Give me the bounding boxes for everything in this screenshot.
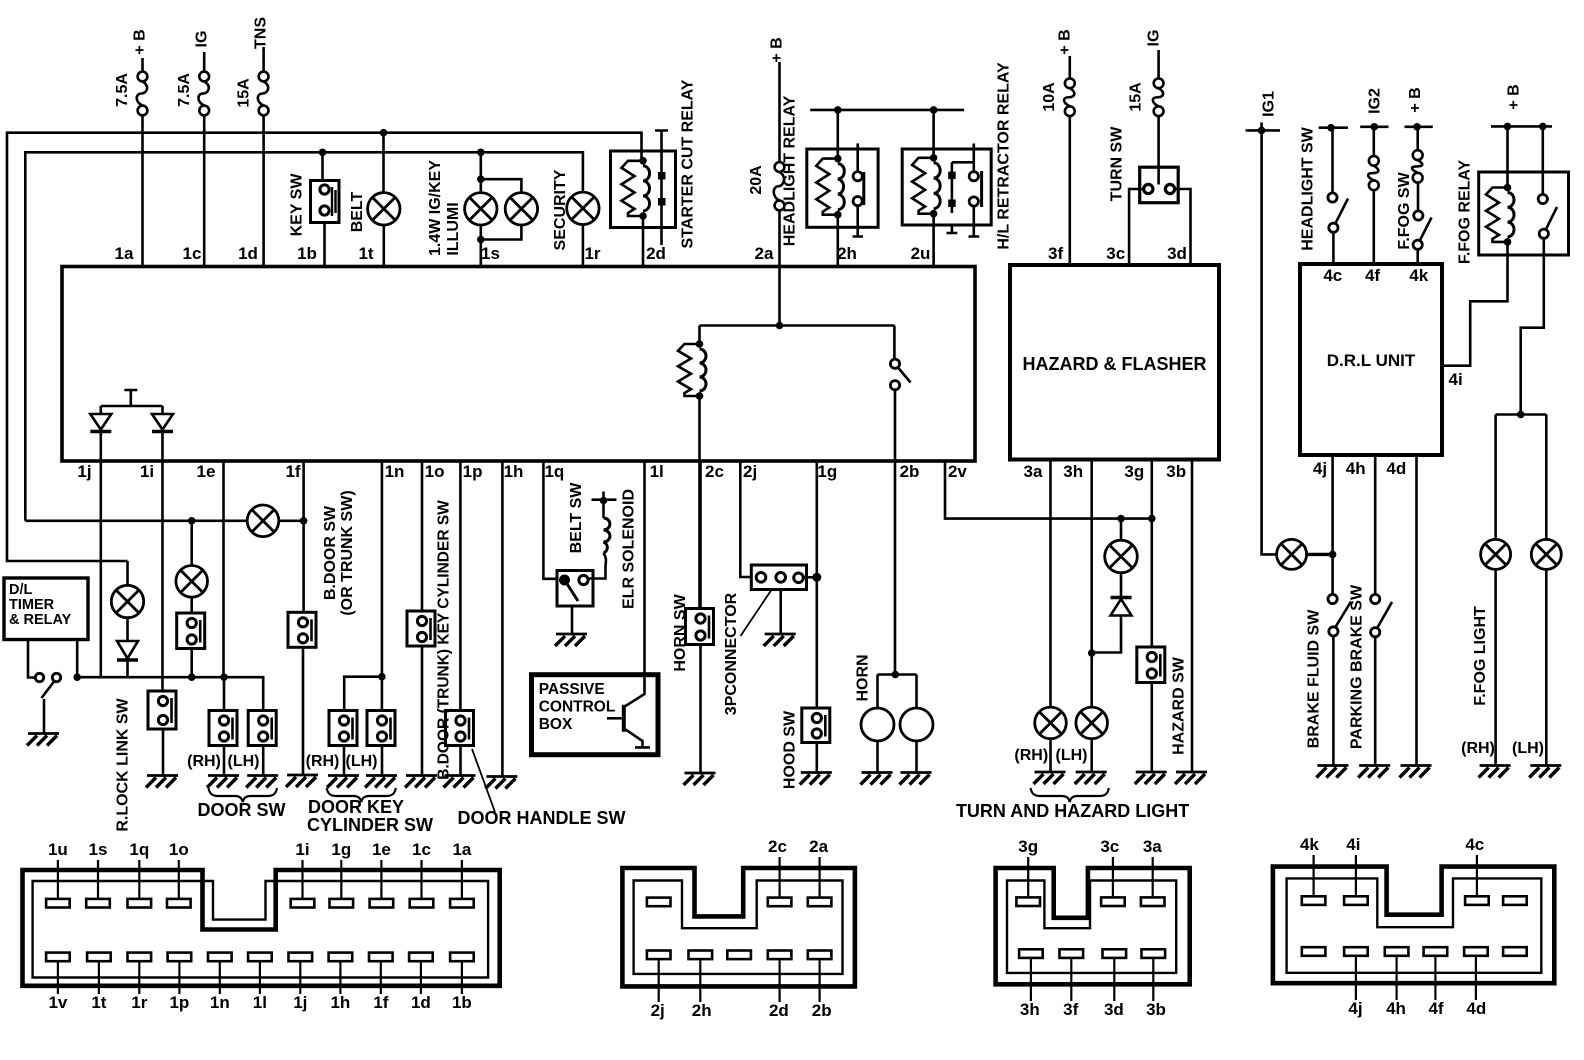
svg-text:HEADLIGHT SW: HEADLIGHT SW: [1300, 126, 1317, 250]
svg-text:2d: 2d: [646, 244, 666, 263]
svg-text:3g: 3g: [1018, 837, 1038, 856]
svg-text:D/L: D/L: [9, 582, 33, 598]
wire bus D (door switch line): [77, 677, 263, 710]
svg-text:HAZARD & FLASHER: HAZARD & FLASHER: [1023, 354, 1207, 374]
horn (left): [876, 675, 879, 708]
wire pin 4j to brake fluid sw: [1331, 455, 1334, 595]
svg-text:15A: 15A: [236, 78, 253, 108]
ground hazard sw: [1135, 772, 1167, 784]
wire pin 1i: [161, 461, 164, 691]
solenoid ELR SOLENOID: [592, 492, 617, 501]
switch HAZARD SW: [1137, 647, 1165, 683]
wire bus A (+B feed, left frame): [7, 133, 642, 561]
svg-text:4c: 4c: [1323, 266, 1342, 285]
svg-text:(LH): (LH): [228, 753, 260, 770]
svg-text:1j: 1j: [77, 462, 91, 481]
svg-text:1g: 1g: [331, 840, 351, 859]
brace door key cylinder sw: [327, 788, 396, 802]
svg-text:+ B: + B: [132, 29, 149, 54]
svg-text:3a: 3a: [1024, 462, 1043, 481]
main connector box (units 1/2): [62, 267, 975, 462]
svg-text:1q: 1q: [129, 840, 149, 859]
headlight relay contact: [856, 143, 859, 171]
svg-text:1v: 1v: [48, 993, 67, 1012]
wire pin 2b to horns: [892, 671, 900, 679]
connector 3 bottom slots: [1019, 949, 1043, 958]
svg-text:1b: 1b: [452, 993, 472, 1012]
fuse 15A IG (turn sw feed): [1157, 50, 1160, 78]
lamp BELT (pin 1t): [380, 129, 388, 137]
ground fog light rh: [1479, 766, 1511, 778]
switch HEADLIGHT SW (pin 4c): [1319, 126, 1348, 129]
fuse 20A +B (pin 2a feed): [778, 62, 781, 162]
wire lamp to 4j line: [1307, 553, 1333, 556]
svg-text:2b: 2b: [900, 462, 920, 481]
ground turn light rh: [1034, 772, 1066, 784]
svg-text:PARKING BRAKE SW: PARKING BRAKE SW: [1349, 584, 1366, 749]
relay HEADLIGHT RELAY (pin 2h): [834, 106, 842, 114]
connector 4 bottom slots: [1302, 947, 1326, 956]
ground 3p connector: [764, 634, 796, 646]
ground belt sw: [555, 634, 587, 646]
svg-text:1n: 1n: [385, 462, 405, 481]
lamp F.FOG LIGHT (RH): [1494, 415, 1497, 540]
svg-text:(RH): (RH): [1014, 747, 1048, 764]
svg-text:1b: 1b: [297, 244, 317, 263]
connector 1 bottom slots: [46, 953, 70, 962]
d/l relay output switch to ground: [28, 640, 34, 678]
svg-text:4j: 4j: [1313, 459, 1327, 478]
svg-text:1g: 1g: [817, 462, 837, 481]
svg-text:1h: 1h: [330, 993, 350, 1012]
switch R.LOCK LINK SW: [148, 691, 176, 729]
svg-text:2c: 2c: [768, 837, 787, 856]
svg-text:4f: 4f: [1428, 999, 1443, 1018]
svg-text:3h: 3h: [1063, 462, 1083, 481]
svg-text:DOOR HANDLE SW: DOOR HANDLE SW: [458, 808, 626, 828]
svg-text:HORN: HORN: [855, 654, 872, 701]
wire pin 1e to bus D: [222, 461, 225, 677]
relay H/L RETRACTOR RELAY (pin 2u): [930, 106, 938, 114]
switch 2a-2b inside main box: [893, 326, 896, 360]
svg-text:(RH): (RH): [306, 753, 340, 770]
svg-text:H/L RETRACTOR RELAY: H/L RETRACTOR RELAY: [996, 62, 1013, 250]
svg-text:3b: 3b: [1166, 462, 1186, 481]
ground fog light lh: [1529, 766, 1561, 778]
svg-text:1j: 1j: [293, 993, 307, 1012]
switch DOOR KEY CYLINDER SW (RH): [329, 711, 357, 746]
svg-text:1a: 1a: [452, 840, 471, 859]
ground d/l relay: [27, 734, 59, 746]
fuse 7.5A +B (pin 1a feed): [141, 58, 144, 72]
svg-text:IG1: IG1: [1261, 91, 1278, 117]
svg-text:1r: 1r: [584, 244, 600, 263]
switch TURN SW (pins 3c/3d): [1140, 167, 1179, 203]
wire pin 2c: [699, 461, 702, 609]
svg-text:1c: 1c: [183, 244, 202, 263]
connector 2 top slots: [647, 898, 671, 907]
svg-text:IG: IG: [194, 31, 211, 48]
wire bus C (courtesy lamp line): [25, 519, 247, 522]
wire pin 2v: [945, 461, 1152, 519]
svg-text:+ B: + B: [769, 37, 786, 62]
f.fog relay contact: [1542, 126, 1545, 194]
connector block 2 outline: [622, 868, 855, 986]
svg-text:(RH): (RH): [1461, 740, 1495, 757]
svg-text:2h: 2h: [837, 244, 857, 263]
connector 3 top slots: [1016, 897, 1040, 906]
svg-text:2c: 2c: [705, 462, 724, 481]
svg-text:10A: 10A: [1041, 82, 1058, 112]
svg-text:BRAKE FLUID SW: BRAKE FLUID SW: [1306, 609, 1323, 749]
svg-text:3c: 3c: [1100, 837, 1119, 856]
svg-text:1p: 1p: [169, 993, 189, 1012]
ground 1h: [485, 777, 517, 789]
svg-text:1d: 1d: [411, 993, 431, 1012]
wire pin 3f: [1069, 116, 1072, 265]
svg-text:2a: 2a: [809, 837, 828, 856]
switch BRAKE FLUID SW: [1328, 594, 1337, 603]
svg-text:3g: 3g: [1124, 462, 1144, 481]
svg-text:BELT: BELT: [349, 191, 366, 232]
fuse IG2 (pin 4f): [1360, 126, 1388, 129]
svg-text:7.5A: 7.5A: [114, 73, 131, 107]
connector 3PCONNECTOR: [751, 565, 806, 590]
svg-text:ELR SOLENOID: ELR SOLENOID: [621, 489, 638, 609]
svg-text:4d: 4d: [1386, 459, 1406, 478]
svg-text:KEY SW: KEY SW: [289, 173, 306, 237]
svg-text:1n: 1n: [210, 993, 230, 1012]
wire pin 1o: [421, 461, 424, 611]
svg-text:1.4W IG/KEY: 1.4W IG/KEY: [427, 160, 444, 256]
svg-text:(LH): (LH): [346, 753, 378, 770]
svg-text:(LH): (LH): [1056, 747, 1088, 764]
svg-text:3f: 3f: [1048, 244, 1063, 263]
svg-text:1h: 1h: [504, 462, 524, 481]
wire IG1 to brake warning lamp: [1262, 130, 1277, 554]
lamp TURN AND HAZARD LIGHT (LH): [1076, 707, 1108, 739]
starter cut relay contact: [655, 131, 668, 246]
svg-text:1q: 1q: [544, 462, 564, 481]
ground parking brake sw: [1358, 766, 1390, 778]
svg-text:+ B: + B: [1057, 29, 1074, 54]
horn (right): [915, 675, 918, 709]
wire f.fog relay contact to fog lights: [1521, 238, 1544, 414]
lamp indicator on 2v line: [1120, 519, 1123, 541]
svg-text:+ B: + B: [1506, 84, 1523, 109]
ground door handle sw: [444, 776, 476, 788]
svg-text:STARTER CUT RELAY: STARTER CUT RELAY: [680, 79, 697, 248]
ground hood sw: [800, 773, 832, 785]
svg-text:20A: 20A: [748, 165, 765, 195]
svg-text:TURN AND HAZARD LIGHT: TURN AND HAZARD LIGHT: [956, 801, 1189, 821]
wire pin 1n to key cylinder switches: [381, 461, 384, 711]
wire pin 1l: [643, 461, 646, 676]
box D.R.L UNIT: [1300, 264, 1442, 455]
svg-text:HAZARD SW: HAZARD SW: [1171, 656, 1188, 755]
ground brake fluid sw: [1316, 766, 1348, 778]
switch HORN SW: [686, 609, 714, 645]
svg-text:7.5A: 7.5A: [176, 73, 193, 107]
lamp on bus C: [247, 505, 279, 537]
svg-text:TIMER: TIMER: [9, 597, 55, 613]
lamp and diode R.LOCK chain: [126, 561, 129, 586]
node IG1 tap: [1246, 123, 1280, 131]
svg-text:(LH): (LH): [1512, 740, 1544, 757]
svg-text:3PCONNECTOR: 3PCONNECTOR: [723, 592, 740, 715]
wire pin 1a: [141, 115, 144, 266]
switch B.DOOR (TRUNK) KEY CYLINDER SW: [407, 611, 435, 646]
switch DOOR HANDLE SW: [446, 711, 474, 746]
svg-text:1f: 1f: [285, 462, 300, 481]
svg-text:BELT SW: BELT SW: [568, 482, 585, 554]
wire d/l relay to bus D: [76, 640, 79, 678]
svg-text:TURN SW: TURN SW: [1109, 126, 1126, 202]
svg-text:3c: 3c: [1106, 244, 1125, 263]
wire pin 2j: [740, 461, 751, 577]
svg-text:4k: 4k: [1300, 835, 1319, 854]
svg-text:2d: 2d: [769, 1001, 789, 1020]
leader 3p connector: [741, 591, 772, 637]
svg-text:IG2: IG2: [1367, 88, 1384, 114]
switch HOOD SW: [802, 708, 830, 743]
svg-text:1p: 1p: [463, 462, 483, 481]
wire pin 2a: [778, 210, 781, 325]
h/l retractor relay contact: [952, 162, 974, 213]
svg-text:HOOD SW: HOOD SW: [782, 710, 799, 789]
ground horn sw: [684, 773, 716, 785]
svg-text:1t: 1t: [91, 993, 106, 1012]
svg-text:F.FOG SW: F.FOG SW: [1396, 171, 1413, 249]
wire pin 3c: [1129, 189, 1144, 265]
wire relay top bus: [810, 109, 964, 112]
connector block 4 outline: [1273, 867, 1554, 984]
svg-text:4i: 4i: [1449, 370, 1463, 389]
lamp brake warning: [1277, 539, 1307, 569]
wire pin 3a to turn light RH: [1049, 461, 1052, 707]
svg-text:2h: 2h: [692, 1001, 712, 1020]
svg-text:1l: 1l: [253, 993, 267, 1012]
ground key cyl rh: [327, 776, 359, 788]
wire pin 3g: [1151, 461, 1154, 647]
fuse and switch F.FOG SW (pin 4k): [1405, 126, 1433, 129]
svg-text:2u: 2u: [911, 244, 931, 263]
wire pin 1p: [459, 461, 462, 711]
leader door handle sw: [472, 749, 495, 812]
svg-text:4h: 4h: [1386, 999, 1406, 1018]
box PASSIVE CONTROL BOX: [532, 675, 659, 755]
switch BELT SW: [557, 571, 593, 607]
svg-text:2j: 2j: [651, 1001, 665, 1020]
svg-text:1u: 1u: [48, 840, 68, 859]
ground r.lock link sw: [146, 776, 178, 788]
svg-text:IG: IG: [1146, 30, 1163, 47]
svg-text:CYLINDER SW: CYLINDER SW: [307, 815, 433, 835]
svg-text:SECURITY: SECURITY: [552, 169, 569, 250]
svg-text:4f: 4f: [1365, 266, 1380, 285]
ground door sw lh: [246, 776, 278, 788]
wire f.fog relay coil to pin 4i: [1442, 242, 1508, 366]
svg-text:3b: 3b: [1146, 1000, 1166, 1019]
svg-text:DOOR KEY: DOOR KEY: [308, 797, 404, 817]
svg-text:1o: 1o: [169, 840, 189, 859]
connector 4 top slots: [1302, 896, 1326, 905]
svg-text:2j: 2j: [743, 462, 757, 481]
svg-text:4d: 4d: [1466, 999, 1486, 1018]
svg-text:3d: 3d: [1167, 244, 1187, 263]
svg-text:4i: 4i: [1346, 835, 1360, 854]
switch B.DOOR SW (OR TRUNK SW): [288, 612, 316, 647]
svg-text:1c: 1c: [412, 840, 431, 859]
wire pin 4d to ground: [1415, 455, 1418, 765]
svg-text:4k: 4k: [1409, 266, 1428, 285]
svg-text:B.DOOR SW: B.DOOR SW: [322, 505, 339, 600]
fuse 10A +B (pin 3f): [1069, 56, 1072, 78]
svg-text:PASSIVE: PASSIVE: [539, 681, 605, 698]
lamp TURN AND HAZARD LIGHT (RH): [1035, 707, 1067, 739]
resistor coil 2a-2c inside main box: [700, 324, 895, 327]
svg-text:1d: 1d: [238, 244, 258, 263]
svg-text:HORN SW: HORN SW: [672, 593, 689, 671]
wire pin 1d: [262, 115, 265, 266]
wire pin 1f: [302, 461, 305, 612]
svg-text:15A: 15A: [1128, 82, 1145, 112]
lamp chain 1e-aux: [190, 521, 193, 566]
svg-text:HEADLIGHT RELAY: HEADLIGHT RELAY: [782, 95, 799, 246]
ground horn left: [861, 773, 893, 785]
lamp F.FOG LIGHT (LH): [1545, 415, 1548, 540]
svg-text:F.FOG LIGHT: F.FOG LIGHT: [1472, 606, 1489, 706]
lamps 1.4W IG/KEY ILLUMI (pin 1s): [477, 149, 485, 157]
connector block 1 outline: [23, 870, 500, 986]
svg-text:1f: 1f: [373, 993, 388, 1012]
wire pin 1h to ground: [501, 461, 504, 776]
ground trunk key cyl: [405, 776, 437, 788]
ground door sw rh: [207, 776, 239, 788]
svg-text:(RH): (RH): [187, 753, 221, 770]
switch PARKING BRAKE SW: [1371, 594, 1380, 603]
svg-text:3a: 3a: [1143, 837, 1162, 856]
ground 4d: [1400, 766, 1432, 778]
svg-text:1i: 1i: [140, 462, 154, 481]
wire pin 1q: [543, 461, 557, 579]
svg-text:1o: 1o: [425, 462, 445, 481]
svg-text:R.LOCK LINK SW: R.LOCK LINK SW: [115, 697, 132, 831]
svg-text:4c: 4c: [1465, 835, 1484, 854]
wire pin 3d: [1175, 189, 1191, 265]
wire pin 4h to parking brake sw: [1374, 455, 1377, 595]
wire pin 1g: [815, 461, 818, 708]
ground horn right: [900, 773, 932, 785]
svg-text:TNS: TNS: [253, 17, 270, 49]
relay F.FOG RELAY: [1491, 125, 1552, 128]
wire pin 1c: [203, 115, 206, 266]
fuse 7.5A IG (pin 1c feed): [203, 52, 206, 72]
brace door sw: [209, 788, 278, 802]
svg-text:1s: 1s: [481, 244, 500, 263]
box HAZARD & FLASHER: [1010, 265, 1219, 460]
svg-text:1l: 1l: [650, 462, 664, 481]
relay box D/L TIMER & RELAY: [4, 578, 88, 640]
svg-text:ILLUMI: ILLUMI: [445, 202, 462, 255]
wire pin 3h to turn light LH: [1090, 461, 1093, 707]
svg-text:1t: 1t: [358, 244, 373, 263]
svg-text:CONTROL: CONTROL: [539, 699, 616, 716]
ground 3b: [1175, 772, 1207, 784]
svg-text:1i: 1i: [295, 840, 309, 859]
svg-text:B.DOOR (TRUNK) KEY CYLINDER SW: B.DOOR (TRUNK) KEY CYLINDER SW: [435, 500, 452, 780]
ground b.door sw: [286, 775, 318, 787]
svg-text:D.R.L UNIT: D.R.L UNIT: [1327, 351, 1416, 370]
svg-text:1e: 1e: [197, 462, 216, 481]
wire pin 3b to ground: [1191, 461, 1194, 772]
svg-text:& RELAY: & RELAY: [9, 612, 72, 628]
svg-text:3d: 3d: [1104, 1000, 1124, 1019]
svg-text:1r: 1r: [131, 993, 147, 1012]
switch DOOR SW (RH): [223, 677, 226, 710]
svg-text:1s: 1s: [89, 840, 108, 859]
switch DOOR SW (LH): [248, 711, 276, 746]
relay STARTER CUT RELAY (pin 2d): [611, 151, 676, 228]
transistor inside passive control box: [607, 676, 650, 747]
svg-text:2b: 2b: [812, 1001, 832, 1020]
svg-text:2a: 2a: [755, 244, 774, 263]
svg-text:BOX: BOX: [539, 716, 573, 733]
connector 2 bottom slots: [647, 951, 671, 960]
svg-text:F.FOG RELAY: F.FOG RELAY: [1457, 160, 1474, 265]
svg-text:2v: 2v: [948, 462, 967, 481]
switch on lamp chain: [177, 613, 205, 649]
connector block 3 outline: [996, 868, 1190, 984]
ground turn light lh: [1075, 772, 1107, 784]
connector 1 top slots: [46, 899, 70, 908]
svg-text:3f: 3f: [1063, 1000, 1078, 1019]
switch KEY SW (pin 1b): [319, 149, 327, 157]
svg-text:3h: 3h: [1020, 1000, 1040, 1019]
fuse 15A TNS (pin 1d feed): [262, 47, 265, 72]
svg-text:4j: 4j: [1348, 999, 1362, 1018]
diode on 2v line: [1111, 596, 1132, 599]
lamp SECURITY (pin 1r): [567, 192, 599, 224]
svg-text:1e: 1e: [372, 840, 391, 859]
svg-text:(OR TRUNK SW): (OR TRUNK SW): [339, 490, 356, 615]
svg-text:4h: 4h: [1346, 459, 1366, 478]
diodes inside main box (pins 1j/1i): [101, 390, 163, 406]
svg-text:+ B: + B: [1407, 87, 1424, 112]
brace turn and hazard light: [1031, 788, 1109, 802]
ground key cyl lh: [365, 776, 397, 788]
wire bus B (IG feed, left frame): [25, 152, 583, 521]
switch DOOR KEY CYLINDER SW (LH): [367, 711, 395, 746]
svg-text:DOOR SW: DOOR SW: [198, 800, 286, 820]
wire pin 1j to bus D: [100, 461, 103, 677]
svg-text:1a: 1a: [115, 244, 134, 263]
